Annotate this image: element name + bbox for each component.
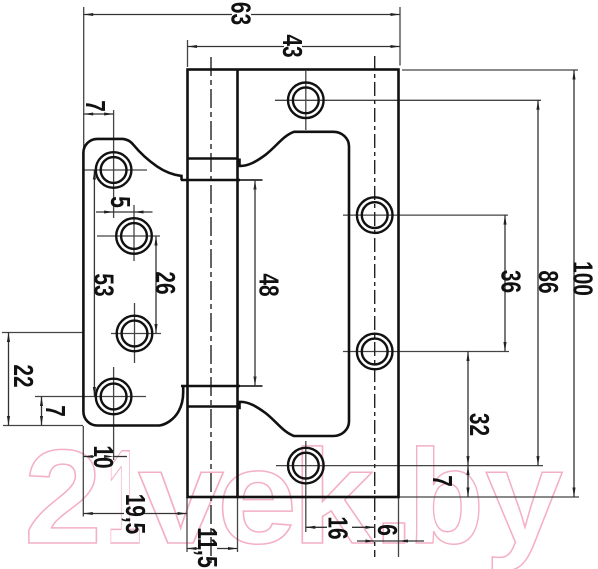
dim 10 line a	[83, 456, 94, 458]
arrow 7 TL a	[84, 112, 94, 115]
hole H1 vertical	[305, 71, 307, 130]
ext bottom right	[399, 496, 580, 498]
barrel right edge	[236, 70, 239, 498]
knuckle cap bottom	[188, 405, 238, 408]
ext top right	[402, 69, 578, 71]
arrow 32 b	[466, 456, 469, 466]
arrow 7 BL b	[40, 416, 43, 426]
svg-text:16: 16	[322, 516, 353, 539]
dim 11.5 line b	[217, 548, 238, 550]
arrow 5 outside b	[134, 210, 144, 213]
arrow 86 b	[536, 456, 539, 466]
hole L3	[117, 316, 153, 352]
arrow 36 a	[503, 215, 506, 225]
dim 63 line b	[251, 14, 400, 16]
ext barrel right down	[237, 497, 239, 552]
dim 36 line	[504, 215, 506, 351]
svg-text:7: 7	[80, 100, 111, 112]
dim 32 and 7 line	[467, 352, 469, 498]
hole H4	[288, 448, 324, 484]
arrow 22 a	[7, 333, 10, 343]
arrow 16 b	[365, 526, 375, 529]
arrow 48 b	[253, 377, 256, 387]
arrow 86 a	[536, 100, 539, 110]
svg-text:22: 22	[8, 364, 39, 387]
hole L4 horizontal	[35, 396, 146, 398]
hole L1 horizontal	[84, 169, 147, 171]
svg-text:86: 86	[533, 270, 564, 293]
dim 26 line	[155, 236, 157, 334]
ext left leaf edge down	[82, 426, 84, 517]
arrow 48 a	[253, 180, 256, 190]
svg-text:36: 36	[495, 270, 526, 293]
dim 48 line	[254, 180, 256, 386]
arrow 7 BL a	[40, 397, 43, 407]
hole H4 vertical	[305, 441, 307, 532]
dim 19.5 line a	[83, 513, 124, 515]
svg-text:100: 100	[567, 261, 598, 296]
arrow 6 outside b	[399, 539, 409, 542]
hole L3 vertical	[134, 303, 136, 363]
hole H2	[357, 197, 393, 233]
arrow 26 b	[154, 324, 157, 334]
arrow 19.5 a	[83, 512, 93, 515]
dim 22 line	[8, 333, 10, 426]
arrow 43 b	[391, 45, 401, 48]
hole H1	[288, 83, 324, 119]
arrow 63 a	[84, 13, 94, 16]
svg-text:10: 10	[88, 445, 119, 468]
svg-text:6: 6	[372, 524, 403, 536]
arrow 7 BR a	[466, 466, 469, 476]
svg-text:32: 32	[464, 413, 495, 436]
arrow 100 b	[572, 488, 575, 498]
arrow 19.5 b	[178, 512, 188, 515]
dim 7 bottom-left line	[41, 397, 43, 426]
dim 43 line a	[188, 46, 285, 48]
arrow 7 TL b	[104, 112, 114, 115]
hole L4 vertical	[113, 367, 115, 460]
svg-text:7: 7	[427, 475, 458, 487]
hole H1 horizontal	[275, 99, 541, 101]
svg-text:11,5: 11,5	[192, 527, 223, 568]
watermark 21vek.by	[24, 423, 563, 569]
arrow 43 a	[188, 45, 198, 48]
dim 53 line	[93, 170, 95, 397]
svg-text:48: 48	[253, 273, 284, 296]
22 top ext	[2, 332, 85, 334]
svg-text:y: y	[485, 423, 563, 569]
dim 100 line	[573, 70, 575, 497]
hole H3 horizontal	[343, 351, 509, 353]
arrow 6 outside a	[365, 539, 375, 542]
arrow 10 b	[104, 455, 114, 458]
arrow 36 b	[503, 342, 506, 352]
arrow 26 a	[154, 236, 157, 246]
knuckle cap top	[188, 157, 238, 160]
right leaf outline	[83, 70, 398, 498]
svg-text:5: 5	[105, 196, 136, 208]
cutout in right leaf	[240, 132, 350, 436]
ext barrel left down	[186, 497, 188, 552]
ext 48 ticks	[240, 180, 263, 386]
arrow 22 b	[7, 416, 10, 426]
arrow 32 a	[466, 352, 469, 362]
left leaf outline	[83, 139, 183, 426]
hole H3	[357, 334, 393, 370]
hole L3 horizontal	[111, 333, 161, 335]
arrow 53 a	[93, 170, 96, 180]
svg-text:19,5: 19,5	[120, 494, 151, 535]
arrow 16 a	[306, 526, 316, 529]
ext right edge down	[398, 497, 400, 557]
arrow 53 b	[93, 387, 96, 397]
hole H2 horizontal	[343, 214, 508, 216]
dim 11.5 line a	[187, 548, 198, 550]
svg-text:63: 63	[225, 2, 256, 25]
dim 16 line a	[306, 526, 327, 528]
dim 7 top-left line	[84, 113, 114, 115]
hole L2 horizontal	[97, 235, 160, 237]
arrow 5 outside a	[104, 210, 114, 213]
hole L1	[96, 152, 132, 188]
arrow 11.5 b	[228, 547, 238, 550]
arrow 100 a	[572, 70, 575, 80]
dim 43 line b	[302, 46, 400, 48]
hole L2 vertical	[133, 205, 135, 261]
dim 19.5 line b	[143, 513, 187, 515]
hole L1 vertical	[113, 110, 115, 218]
hole L4	[96, 379, 132, 415]
dim 16 line b	[352, 526, 375, 528]
arrow 11.5 a	[187, 547, 197, 550]
ext 48 top	[240, 179, 263, 181]
ext 43 left	[187, 40, 189, 67]
dim 6 line	[357, 540, 424, 542]
svg-text:43: 43	[277, 34, 308, 57]
dim 10 line b	[113, 456, 127, 458]
hole L2	[116, 218, 152, 254]
svg-text:b: b	[408, 423, 484, 569]
ext 63 left	[83, 7, 85, 150]
dim 86 line	[537, 100, 539, 465]
arrow 10 a	[83, 455, 93, 458]
centerline right holes	[374, 56, 376, 557]
hole H4 horizontal	[276, 465, 543, 467]
knuckle cap bottom upper	[181, 385, 240, 388]
svg-text:53: 53	[88, 273, 119, 296]
knuckle cap top lower	[181, 179, 240, 182]
centerline hinge pin	[210, 57, 212, 563]
22 bottom ext	[3, 425, 83, 427]
ext 63/43 right	[399, 7, 401, 66]
ext 48 bottom	[240, 385, 263, 387]
dim 5 line	[96, 211, 153, 213]
dim 63 line a	[84, 14, 232, 16]
arrow 63 b	[391, 13, 401, 16]
svg-text:26: 26	[150, 271, 181, 294]
svg-text:7: 7	[40, 405, 71, 417]
arrow 7 BR b	[466, 488, 469, 498]
